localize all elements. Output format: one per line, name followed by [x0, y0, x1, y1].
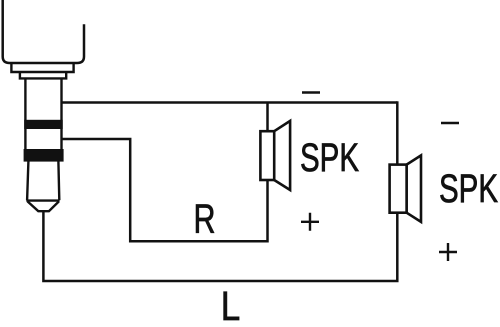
- plug shaft: [24, 79, 26, 161]
- speaker SPK1 body: [260, 131, 274, 180]
- plug tip point: [28, 201, 59, 211]
- insulator band 2: [24, 149, 64, 162]
- speaker SPK1 cone: [274, 121, 290, 190]
- wire: right speaker top drop: [396, 101, 399, 164]
- plug collar step 1: [11, 64, 73, 72]
- label minus SPK2: [441, 122, 459, 124]
- wire: middle speaker top drop: [266, 103, 269, 132]
- svg-text:L: L: [221, 283, 241, 322]
- plug barrel (handle): [3, 0, 84, 63]
- wire: common (sleeve) horizontal to right speaker: [62, 101, 398, 104]
- svg-text:R: R: [194, 195, 216, 241]
- svg-text:SPK: SPK: [300, 136, 359, 180]
- svg-text:SPK: SPK: [439, 167, 498, 211]
- insulator band 1: [24, 120, 63, 129]
- label plus SPK1: [301, 213, 319, 231]
- wire: L tip lead: [43, 211, 397, 281]
- speaker SPK2 body: [390, 165, 407, 213]
- plug collar step 2: [20, 73, 66, 79]
- wire: R ring lead: [62, 139, 268, 241]
- label plus SPK2: [439, 243, 457, 261]
- plug tip frustum: [27, 162, 59, 201]
- speaker SPK2 cone: [407, 155, 421, 222]
- label minus SPK1: [302, 91, 320, 93]
